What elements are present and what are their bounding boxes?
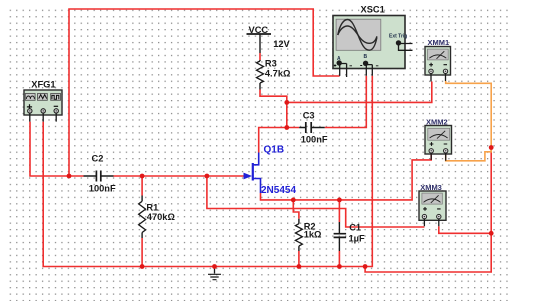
wire C1 branch <box>338 200 340 267</box>
wire R3 node to XMM1 plus <box>287 82 432 103</box>
node R1 bottom junction <box>140 264 145 269</box>
node orange rail junction <box>489 145 494 150</box>
node drain junction <box>284 125 289 130</box>
resistor R1 <box>139 196 176 239</box>
node source C1 junction <box>337 198 342 203</box>
svg-text:C1: C1 <box>349 223 361 233</box>
svg-text:2N5454: 2N5454 <box>261 185 296 196</box>
wire orange XMM1 minus to XMM2 minus <box>446 81 492 161</box>
svg-text:VCC: VCC <box>249 25 269 35</box>
node R1 top junction <box>140 174 145 179</box>
capacitor C1 <box>334 222 365 251</box>
node source R2 junction <box>291 198 296 203</box>
oscilloscope XSC1 <box>333 5 413 78</box>
resistor R2 <box>295 219 322 251</box>
svg-text:4.7kΩ: 4.7kΩ <box>265 69 291 79</box>
wire C2 output to JFET gate <box>114 175 245 177</box>
wire R1 top and bottom connections <box>141 176 143 267</box>
wire scope B minus down to ground rail <box>365 76 372 267</box>
multimeter XMM3 <box>419 183 446 226</box>
svg-text:12V: 12V <box>273 39 290 49</box>
node input junction at C2 line <box>67 174 72 179</box>
transistor Q1 JFET 2N5454 <box>244 145 297 197</box>
svg-text:XSC1: XSC1 <box>361 5 385 15</box>
node ground junction <box>212 264 217 269</box>
wire VCC to R3 and R3 down to node <box>260 53 287 128</box>
multimeter XMM2 <box>425 118 452 161</box>
wire R2 branch <box>293 200 299 267</box>
capacitor C3 <box>299 111 328 145</box>
svg-text:Q1B: Q1B <box>264 145 285 156</box>
wire XFG1 common down and bottom ground rail <box>43 122 491 272</box>
svg-text:R3: R3 <box>265 59 277 69</box>
svg-text:Ext Trig: Ext Trig <box>389 34 407 40</box>
node gate junction <box>205 174 210 179</box>
svg-text:C3: C3 <box>303 111 315 121</box>
resistor R3 <box>257 59 291 90</box>
function generator XFG1 <box>24 80 62 122</box>
wire XFG1 plus terminal down to C2 input node <box>30 122 84 176</box>
svg-text:1kΩ: 1kΩ <box>304 230 322 240</box>
node XMM3 minus rail junction <box>489 231 494 236</box>
svg-text:100nF: 100nF <box>301 135 328 145</box>
svg-text:470kΩ: 470kΩ <box>147 212 176 222</box>
multimeter XMM1 <box>425 38 451 82</box>
svg-text:1µF: 1µF <box>349 234 366 244</box>
wire drain node to C3 and C3 to scope B plus <box>259 76 367 153</box>
node C1 bottom junction <box>337 264 342 269</box>
svg-text:XMM1: XMM1 <box>428 38 450 47</box>
svg-text:XFG1: XFG1 <box>31 80 55 90</box>
VCC power symbol <box>247 25 291 53</box>
node R3 output junction <box>284 100 289 105</box>
wire XMM3 minus to right rail <box>439 226 491 233</box>
wire gate node down to XMM3 plus <box>207 176 425 227</box>
wire JFET source output line to XMM2 plus <box>261 155 432 200</box>
svg-text:C2: C2 <box>92 154 104 164</box>
node R2 bottom junction <box>297 264 302 269</box>
ground <box>208 267 221 280</box>
node B minus rail junction <box>363 264 368 269</box>
svg-text:B: B <box>364 54 368 60</box>
svg-text:100nF: 100nF <box>89 184 116 194</box>
capacitor C2 <box>84 154 116 194</box>
wire top feedback from input node to oscilloscope A <box>69 9 340 176</box>
